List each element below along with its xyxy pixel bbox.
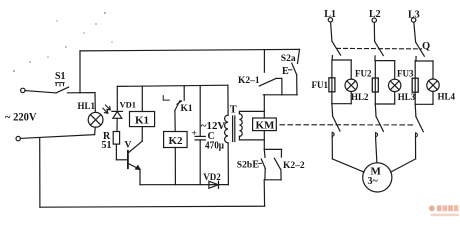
svg-text:K1: K1 <box>135 115 149 127</box>
svg-text:S2a: S2a <box>281 54 296 64</box>
wire <box>21 135 95 139</box>
svg-text:FU2: FU2 <box>355 68 372 78</box>
contact K2-1 <box>238 50 282 95</box>
svg-text:FU3: FU3 <box>397 68 414 78</box>
switch Q linkage <box>337 47 422 50</box>
lamp HL4 <box>415 61 455 104</box>
terminal upper AC <box>21 88 25 92</box>
contactor KM pole 3 <box>391 104 424 172</box>
resistor R 51 <box>102 131 120 160</box>
svg-text:L3: L3 <box>408 10 420 21</box>
contactor coil KM <box>253 95 277 150</box>
svg-text:E: E <box>282 66 289 77</box>
node L2 <box>369 9 381 22</box>
svg-text:~12V: ~12V <box>201 121 226 132</box>
wire drop to bottom rail <box>39 138 41 208</box>
svg-text:+: + <box>192 129 197 139</box>
wire <box>174 111 176 132</box>
svg-text:3~: 3~ <box>368 176 379 187</box>
svg-text:Q: Q <box>422 41 430 52</box>
pushbutton S2b <box>237 149 282 179</box>
relay coil K2 <box>164 132 188 185</box>
wire riser right <box>263 180 265 206</box>
terminal lower AC <box>16 136 20 140</box>
transformer T <box>225 85 265 184</box>
svg-text:51: 51 <box>102 140 112 151</box>
svg-text:K2: K2 <box>169 135 184 147</box>
svg-text:S1: S1 <box>55 71 66 82</box>
svg-text:~ 220V: ~ 220V <box>5 110 37 124</box>
svg-text:HL1: HL1 <box>78 101 96 111</box>
svg-text:V: V <box>125 141 132 151</box>
svg-text:HL3: HL3 <box>398 92 416 102</box>
lamp HL3 <box>375 61 416 104</box>
wire <box>68 92 96 94</box>
contact K1 <box>163 86 193 115</box>
svg-text:L1: L1 <box>324 9 336 20</box>
node line under S2a/K2-1 <box>263 94 297 96</box>
svg-text:470μ: 470μ <box>205 140 224 151</box>
wire top rail <box>80 49 300 51</box>
fuse FU3 branch <box>412 61 433 104</box>
switch Q pole 1 <box>331 22 341 60</box>
svg-text:FU1: FU1 <box>312 80 329 90</box>
wire bottom rail <box>40 206 265 207</box>
wire riser to top rail <box>79 51 81 93</box>
photodiode VD1 <box>103 86 136 131</box>
wire <box>25 91 56 93</box>
svg-text:S2b: S2b <box>237 161 252 171</box>
fuse FU2 branch <box>372 61 394 104</box>
capacitor C 470u <box>192 86 227 185</box>
diode VD2 <box>140 172 228 188</box>
wire sub-rail <box>117 85 228 86</box>
svg-text:VD1: VD1 <box>120 100 137 110</box>
fuse FU1 branch <box>312 60 352 104</box>
svg-text:K1: K1 <box>181 104 193 114</box>
node L1 <box>324 9 336 22</box>
lamp HL2 <box>332 60 372 104</box>
transistor V <box>125 141 143 185</box>
lamp HL1 <box>78 93 104 135</box>
node L3 <box>408 10 420 23</box>
svg-text:K2–1: K2–1 <box>238 76 260 86</box>
svg-text:KM: KM <box>256 119 276 131</box>
svg-text:HL4: HL4 <box>438 91 456 101</box>
contactor KM pole 1 <box>332 104 364 172</box>
pushbutton S2a <box>281 49 300 94</box>
motor M 3~ <box>363 163 392 192</box>
svg-text:T: T <box>230 104 237 115</box>
switch S1 <box>55 71 69 93</box>
watermark <box>429 205 459 216</box>
contact K2-2 <box>265 149 305 179</box>
svg-text:HL2: HL2 <box>351 92 369 102</box>
svg-text:E: E <box>252 159 259 170</box>
svg-text:K2–2: K2–2 <box>283 161 305 171</box>
wire base <box>116 159 127 161</box>
switch Q pole 2 <box>374 22 383 60</box>
switch Q pole 3 <box>414 22 425 61</box>
contactor KM pole 2 <box>375 104 383 163</box>
speckles <box>13 12 113 72</box>
dashed linkage from KM <box>280 124 414 126</box>
relay coil K1 <box>130 86 155 141</box>
